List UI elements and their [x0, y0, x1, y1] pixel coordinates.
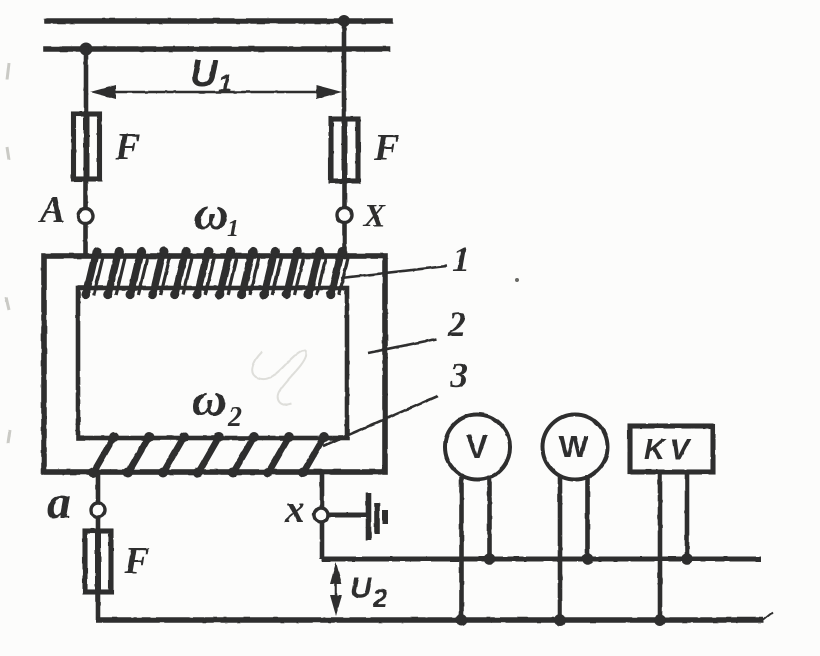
- terminal X: [337, 208, 352, 223]
- terminal x: [314, 508, 328, 522]
- svg-text:ω: ω: [194, 187, 229, 240]
- node V right lead junction: [484, 553, 496, 565]
- svg-text:U: U: [190, 53, 219, 95]
- leader line for label 2 (core): [368, 339, 436, 353]
- wire bus L2 (second line): [46, 46, 388, 52]
- dimension arrow U1: [90, 85, 342, 99]
- leader line for label 3 (secondary winding): [323, 396, 438, 446]
- fuse F2 (right primary fuse): [331, 119, 358, 181]
- wire KV left lead to bottom bus: [658, 472, 663, 620]
- svg-text:2: 2: [372, 583, 388, 613]
- svg-text:KV: KV: [644, 434, 694, 466]
- ink speck: [515, 278, 519, 282]
- wire secondary bus (upper): [322, 556, 761, 561]
- node W right lead junction: [582, 553, 594, 565]
- bottom bus end tick: [763, 612, 773, 620]
- svg-text:F: F: [373, 127, 399, 169]
- label w2 (secondary winding): [192, 373, 242, 433]
- svg-text:a: a: [47, 476, 71, 529]
- wire winding w2 to terminal a: [96, 472, 101, 504]
- transformer core inner rectangle (window): [78, 288, 347, 438]
- svg-text:1: 1: [452, 239, 470, 279]
- wire fuse F2 to terminal X: [342, 181, 347, 208]
- svg-text:1: 1: [227, 216, 239, 242]
- wire fuse F1 to terminal A: [83, 179, 88, 209]
- wire secondary bus (lower / bottom): [96, 617, 763, 623]
- wire bus L1 (top line): [47, 18, 390, 24]
- wire fuse F3 to bottom bus: [96, 592, 101, 620]
- wire terminal a to fuse F3: [96, 517, 101, 531]
- wire A drop (L2 to fuse F1): [84, 49, 89, 116]
- primary winding w1 coil (12 turns): [81, 247, 349, 299]
- fuse F3 (secondary fuse): [85, 531, 111, 592]
- wire X drop (L1 to fuse F2): [342, 21, 347, 121]
- label U2: [350, 572, 388, 613]
- node junction on L1 (phase X tap): [338, 15, 350, 27]
- node V left lead junction: [456, 614, 468, 626]
- svg-text:W: W: [559, 429, 589, 464]
- wire KV right lead to upper bus: [685, 472, 690, 559]
- wire terminal A to winding w1: [83, 223, 88, 258]
- leader line for label 1 (primary winding): [341, 266, 447, 278]
- wattmeter W: [543, 415, 608, 480]
- dimension arrow U2: [330, 562, 342, 616]
- terminal A: [78, 209, 93, 224]
- wire terminal x down to secondary bus: [320, 522, 325, 559]
- svg-text:2: 2: [447, 304, 466, 344]
- svg-text:V: V: [466, 428, 488, 465]
- wire terminal x to ground: [328, 512, 366, 517]
- faint scan smudges on left edge: [6, 63, 10, 443]
- node junction on L2 (phase A tap): [80, 43, 93, 56]
- svg-text:U: U: [350, 572, 373, 605]
- terminal a: [91, 503, 105, 517]
- node W left lead junction: [554, 614, 566, 626]
- transformer core outer rectangle (2): [44, 256, 385, 472]
- wire W left lead to bottom bus: [558, 477, 563, 620]
- voltmeter V: [445, 415, 510, 480]
- wire terminal X to winding w1: [342, 222, 347, 258]
- svg-text:F: F: [114, 126, 140, 168]
- watermark squiggle: [252, 350, 306, 405]
- label U1: [190, 53, 232, 98]
- fuse F1 (left primary fuse): [74, 114, 100, 179]
- label w1 (primary winding): [194, 187, 239, 242]
- svg-text:F: F: [123, 540, 149, 582]
- kilovoltmeter KV: [630, 426, 713, 472]
- secondary winding w2 coil (7 turns): [88, 432, 329, 478]
- svg-text:X: X: [363, 197, 386, 233]
- wire V left lead to bottom bus: [459, 477, 464, 620]
- svg-text:x: x: [284, 486, 305, 531]
- svg-text:ω: ω: [192, 373, 227, 426]
- node KV left lead junction: [654, 614, 666, 626]
- wire W right lead to upper bus: [585, 475, 590, 559]
- wire V right lead to upper bus: [487, 475, 492, 559]
- ground symbol: [369, 493, 386, 540]
- svg-text:A: A: [38, 189, 65, 231]
- svg-text:2: 2: [227, 402, 242, 433]
- wire winding w2 to terminal x: [320, 472, 325, 509]
- svg-text:1: 1: [218, 70, 232, 98]
- svg-text:3: 3: [449, 355, 468, 395]
- node KV right lead junction: [681, 553, 693, 565]
